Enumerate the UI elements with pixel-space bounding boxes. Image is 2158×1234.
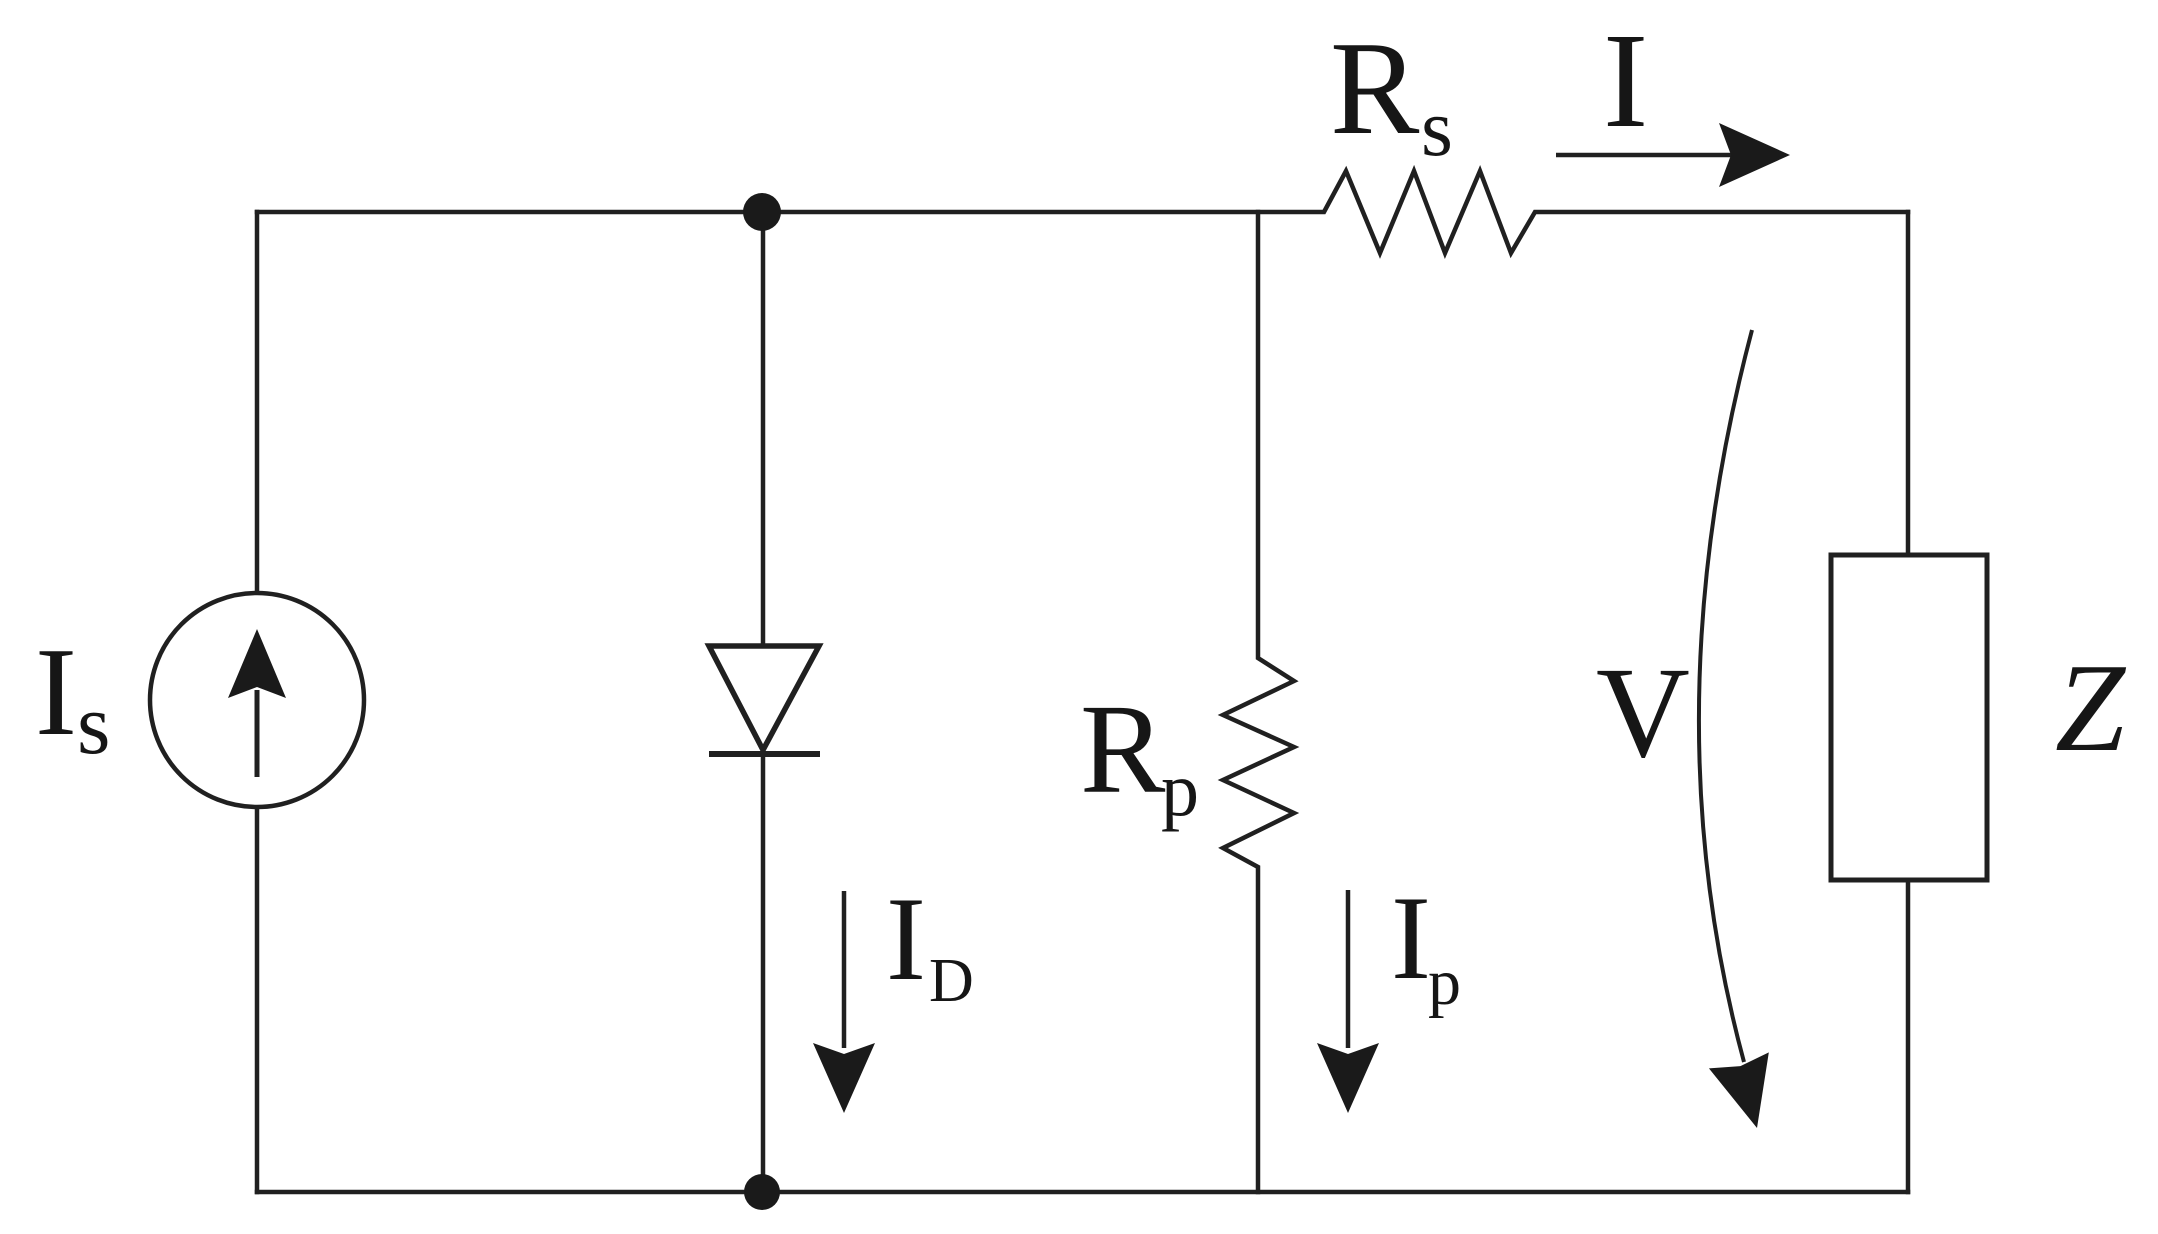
svg-text:s: s <box>1421 82 1453 173</box>
svg-text:p: p <box>1428 946 1461 1019</box>
svg-text:D: D <box>929 947 974 1015</box>
svg-text:I: I <box>886 872 926 1005</box>
svg-text:I: I <box>1391 871 1431 1004</box>
svg-text:I: I <box>1603 6 1648 156</box>
svg-text:p: p <box>1161 748 1199 832</box>
svg-text:I: I <box>35 623 77 762</box>
svg-text:R: R <box>1080 678 1166 820</box>
svg-text:R: R <box>1330 14 1420 162</box>
svg-text:V: V <box>1596 641 1690 785</box>
svg-text:Z: Z <box>2055 639 2127 778</box>
svg-text:s: s <box>77 676 110 772</box>
